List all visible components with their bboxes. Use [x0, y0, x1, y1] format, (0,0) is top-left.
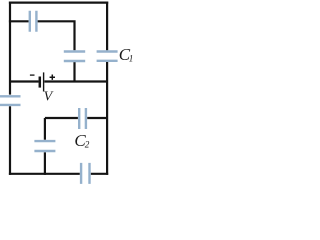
wire right border lower segment — [106, 62, 108, 175]
wire battery wire right — [44, 80, 107, 82]
svg-text:2: 2 — [85, 140, 90, 150]
wire left border upper segment — [9, 2, 11, 95]
capacitor (unlabeled, lower-middle) plates — [34, 141, 55, 151]
wire battery wire left — [10, 80, 39, 82]
battery plus sign — [50, 75, 55, 80]
wire top border — [9, 1, 108, 3]
capacitor (unlabeled, middle) plates — [64, 52, 85, 62]
wire top branch right of capacitor with corner down — [38, 21, 75, 50]
battery V positive plate (long thin) — [43, 72, 45, 91]
battery minus sign — [30, 74, 35, 76]
capacitor (unlabeled, bottom border) plates — [81, 163, 89, 184]
wire right border upper segment — [106, 2, 108, 51]
capacitor (unlabeled, left border) plates — [0, 96, 21, 105]
svg-text:V: V — [44, 90, 54, 105]
wire lower branch corner: vertical down then horizontal right — [45, 118, 78, 175]
wire bottom border left segment — [9, 173, 80, 175]
wire left border lower segment — [9, 106, 11, 175]
capacitor (unlabeled, top-left) plates — [30, 11, 37, 32]
capacitor C1 plates — [97, 52, 118, 61]
wire middle capacitor to battery wire — [73, 62, 75, 82]
wire bottom border right segment — [91, 173, 108, 175]
battery V negative plate (short thick) — [39, 77, 42, 88]
wire lower branch right of C2 — [87, 117, 107, 119]
wire top branch left of capacitor — [9, 20, 29, 22]
capacitor C2 plates — [79, 108, 86, 129]
svg-text:1: 1 — [129, 53, 134, 63]
